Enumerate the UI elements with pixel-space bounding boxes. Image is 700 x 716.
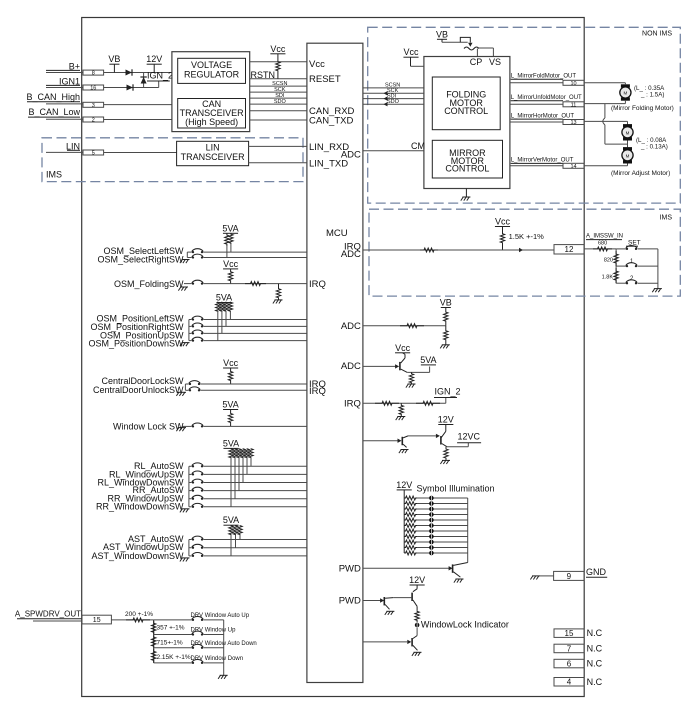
- svg-text:OSM_FoldingSW: OSM_FoldingSW: [114, 279, 184, 289]
- wire SDI right: [363, 93, 424, 100]
- svg-text:(Mirror Folding Motor): (Mirror Folding Motor): [611, 105, 674, 112]
- svg-text:ADC: ADC: [341, 361, 361, 372]
- svg-text:Vcc: Vcc: [309, 59, 325, 70]
- resistor 680: [593, 241, 612, 251]
- label WindowLock Indicator: [421, 620, 509, 630]
- svg-text:CP: CP: [470, 57, 483, 67]
- svg-text:12V: 12V: [438, 415, 454, 425]
- RL RR switch group: [96, 461, 307, 513]
- svg-text:4: 4: [567, 678, 572, 687]
- illumination resistor-LED array: [404, 490, 468, 555]
- wire IGN1 diode run: [104, 81, 170, 88]
- ground below motor control: [461, 189, 471, 201]
- label N.C 7: [587, 644, 603, 654]
- svg-text:15: 15: [565, 629, 574, 638]
- svg-text:200 +-1%: 200 +-1%: [125, 611, 153, 618]
- svg-text:TRANSCEIVER: TRANSCEIVER: [181, 152, 246, 162]
- net 12V windowlock: [409, 575, 425, 585]
- wire SDI left: [250, 93, 307, 99]
- svg-text:N.C: N.C: [587, 659, 603, 669]
- ground IRQ pulldown: [396, 417, 406, 421]
- wire B_CAN_High: [27, 102, 83, 104]
- net VB (motor supply): [436, 29, 448, 39]
- Vcc pullup label: [270, 44, 286, 54]
- svg-text:8: 8: [92, 71, 95, 77]
- diode D2 on IGN1 line: [127, 84, 134, 90]
- MCU pin label CAN_TXD: [309, 115, 353, 126]
- wire M2 to M3: [627, 141, 629, 148]
- svg-text:IGN_2: IGN_2: [147, 71, 173, 81]
- resistor 357: [152, 621, 185, 635]
- svg-text:12V: 12V: [409, 575, 425, 585]
- ground IMS switches: [652, 289, 662, 293]
- net 5VA (AST): [223, 515, 239, 525]
- ground Q2: [406, 384, 416, 388]
- transistor Q3: [398, 437, 404, 445]
- resistor 1.5K pullup: [500, 227, 504, 251]
- svg-text:B+: B+: [69, 61, 80, 71]
- svg-text:OSM_SelectRightSW: OSM_SelectRightSW: [97, 255, 184, 265]
- FET arrow: [468, 43, 472, 47]
- svg-text:L_MirrorUnfoldMotor_OUT: L_MirrorUnfoldMotor_OUT: [511, 95, 582, 101]
- CAN transceiver block: [178, 99, 246, 129]
- pullup resistor folding: [228, 269, 232, 284]
- resistor VB upper: [444, 308, 448, 326]
- wire pin12 out: [584, 248, 616, 250]
- label B_CAN_High: [26, 92, 80, 102]
- wire pin5 to LIN transceiver: [104, 152, 177, 154]
- net Vcc motor ctrl: [403, 47, 419, 57]
- wire RSTN to MCU RESET: [250, 78, 307, 80]
- svg-text:ADC: ADC: [341, 249, 361, 260]
- svg-text:13: 13: [570, 120, 576, 126]
- svg-text:5VA: 5VA: [216, 293, 232, 303]
- svg-text:VOLTAGE: VOLTAGE: [191, 60, 232, 70]
- switch 1: [616, 259, 658, 267]
- folding motor control block: [432, 77, 500, 130]
- label A_IMSSW_IN: [586, 234, 623, 240]
- wire PWD illum: [363, 567, 451, 569]
- regulator outer box: [172, 52, 250, 132]
- svg-text:_ : 0.13A): _ : 0.13A): [640, 144, 668, 151]
- svg-text:Window Lock SW: Window Lock SW: [113, 421, 184, 431]
- svg-text:B_CAN_High: B_CAN_High: [26, 92, 80, 102]
- label A_SPWDRV_OUT: [15, 610, 82, 619]
- pin 13 L_MirrorHorMotor_OUT: [510, 113, 584, 126]
- wire LIN: [46, 150, 83, 152]
- wire ADC divider: [363, 325, 446, 327]
- wire IGN1: [46, 85, 83, 87]
- svg-text:16: 16: [90, 85, 96, 91]
- pin 4 NC: [554, 678, 584, 687]
- label folding motor current: [634, 85, 665, 99]
- svg-text:N.C: N.C: [587, 677, 603, 687]
- svg-text:CAN_TXD: CAN_TXD: [309, 115, 353, 126]
- label IMS right: [660, 215, 673, 222]
- pin 3: [83, 102, 104, 108]
- wire MCU to Q8 base: [363, 641, 407, 643]
- wire LIN_TXD: [249, 162, 307, 164]
- svg-text:CONTROL: CONTROL: [444, 106, 488, 116]
- wire IMS sense: [363, 249, 554, 251]
- voltage regulator text: [184, 60, 240, 80]
- switch OSM_SelectRightSW: [97, 255, 184, 265]
- svg-text:Vcc: Vcc: [270, 44, 286, 54]
- ground Q8: [412, 652, 422, 656]
- NON IMS dashed region: [368, 27, 681, 203]
- svg-text:12V: 12V: [146, 54, 162, 64]
- pin 5: [83, 150, 104, 156]
- svg-text:IMS: IMS: [660, 215, 673, 222]
- wire pin15 to ladder: [111, 619, 153, 621]
- svg-text:L_MirrorHorMotor_OUT: L_MirrorHorMotor_OUT: [511, 113, 575, 119]
- net 5VA (position): [216, 293, 232, 303]
- wire B+ to regulator: [104, 72, 172, 74]
- svg-text:IGN1: IGN1: [59, 76, 80, 86]
- svg-text:RR_WindowDownSW: RR_WindowDownSW: [96, 502, 184, 512]
- svg-text:WindowLock Indicator: WindowLock Indicator: [421, 620, 509, 630]
- label mirror adjust motor: [611, 170, 670, 177]
- pin 9 GND: [554, 571, 584, 580]
- svg-text:5VA: 5VA: [223, 515, 239, 525]
- svg-text:715+-1%: 715+-1%: [157, 639, 183, 646]
- net IGN_2 label: [147, 71, 173, 82]
- outer border frame of module: [82, 18, 585, 697]
- svg-text:357 +-1%: 357 +-1%: [157, 625, 185, 632]
- resistor 1.8K: [602, 268, 619, 283]
- label B_CAN_Low: [28, 107, 80, 117]
- MCU pin label RESET: [309, 74, 341, 85]
- voltage regulator block: [178, 58, 246, 83]
- wire pin3 to CAN: [104, 104, 172, 106]
- position switch group: [88, 314, 306, 349]
- wire FET to VS: [477, 48, 493, 57]
- svg-text:M: M: [626, 131, 630, 136]
- svg-text:3: 3: [92, 103, 95, 109]
- MCU pin label CAN_RXD: [309, 106, 355, 117]
- svg-text:5VA: 5VA: [222, 223, 238, 233]
- ladder node chain: [153, 620, 155, 663]
- pin 12: [554, 245, 584, 255]
- MCU pin label LIN_RXD: [309, 142, 349, 153]
- wire ADC to Q base: [363, 365, 396, 367]
- svg-text:M: M: [626, 154, 630, 159]
- folding branch resistor: [273, 284, 283, 304]
- svg-text:L_MirrorVerMotor_OUT: L_MirrorVerMotor_OUT: [511, 158, 574, 164]
- net 12V (12VC): [438, 415, 454, 425]
- net VB tap: [108, 54, 120, 72]
- svg-text:Vcc: Vcc: [223, 259, 239, 269]
- MCU pin label IRQ (IGN): [344, 398, 361, 409]
- wire PWD drive: [363, 440, 398, 442]
- wire CAN_RXD: [250, 110, 307, 112]
- transistor Q4: [440, 436, 447, 447]
- wire 12V wl: [413, 585, 417, 592]
- MCU pin label ADC (VB): [341, 321, 361, 332]
- svg-text:SDO: SDO: [274, 99, 287, 105]
- net 12V illumination: [396, 480, 412, 490]
- net 5VA out: [420, 355, 436, 365]
- wire B_CAN_Low: [28, 117, 83, 119]
- svg-text:IMS: IMS: [46, 170, 62, 180]
- pullup resistor door: [228, 368, 232, 384]
- LED windowlock: [415, 621, 420, 627]
- net Vcc (folding): [223, 259, 239, 269]
- svg-text:5VA: 5VA: [222, 400, 238, 410]
- svg-text:IRQ: IRQ: [344, 398, 361, 409]
- svg-text:NON IMS: NON IMS: [642, 31, 672, 38]
- LIN transceiver text: [181, 142, 246, 161]
- net Vcc (5VA switch): [395, 343, 411, 353]
- pullup resistors select: [225, 233, 233, 257]
- transistor Q2: [395, 362, 401, 370]
- motor M1 mirror folding: [620, 84, 631, 100]
- resistor Q2 load: [409, 372, 413, 384]
- wire CAN_TXD: [250, 119, 307, 121]
- svg-text:IRQ: IRQ: [309, 279, 326, 290]
- label mirror folding motor: [611, 105, 674, 112]
- svg-text:2.15K +-1%: 2.15K +-1%: [157, 654, 191, 661]
- svg-text:REGULATOR: REGULATOR: [184, 70, 240, 80]
- svg-text:SDO: SDO: [387, 99, 400, 105]
- svg-text:12V: 12V: [396, 480, 412, 490]
- wire A_SPWDRV: [33, 620, 82, 622]
- svg-text:5VA: 5VA: [420, 355, 436, 365]
- ground Q6: [385, 611, 395, 615]
- pullup resistor window lock: [228, 410, 232, 427]
- Q3 emitter ground: [399, 444, 409, 453]
- net 5VA (window lock): [222, 400, 238, 410]
- wire Q4 emitter to 12VC: [447, 443, 468, 447]
- window lock switch: [113, 421, 307, 431]
- transistor Q5 illumination: [449, 563, 468, 578]
- svg-text:5: 5: [92, 150, 95, 156]
- resistor 715: [152, 636, 183, 648]
- wire LIN_RXD: [249, 145, 307, 147]
- svg-text:OSM_PositionDownSW: OSM_PositionDownSW: [88, 339, 184, 349]
- pin 15 NC: [554, 629, 584, 638]
- resistor RSTN pullup: [276, 54, 280, 79]
- svg-text:RESET: RESET: [309, 74, 341, 85]
- svg-text:Vcc: Vcc: [403, 47, 419, 57]
- MCU pin label IRQ (lock): [309, 379, 326, 390]
- label 1.5K: [509, 232, 545, 241]
- IMS switch common bus: [657, 249, 659, 289]
- MCU pin label PWD (wl): [339, 596, 361, 607]
- switch SET: [616, 240, 658, 250]
- label Symbol Illumination: [417, 484, 495, 494]
- ground DRV: [218, 675, 228, 679]
- pin 6 NC: [554, 659, 584, 668]
- FET gate loop: [460, 37, 470, 42]
- svg-text:Vcc: Vcc: [495, 217, 511, 227]
- motor M3 mirror vertical: [622, 147, 633, 163]
- svg-text:M: M: [624, 91, 628, 96]
- diode D1 on B+ line: [126, 69, 133, 75]
- svg-text:PWD: PWD: [339, 563, 361, 574]
- MCU pin label PWD (illum): [339, 563, 361, 574]
- svg-text:MCU: MCU: [326, 228, 348, 239]
- wire M3 return to pin14: [584, 164, 627, 166]
- resistor IRQ 1: [375, 401, 399, 405]
- pin 11 L_MirrorUnfoldMotor_OUT: [510, 95, 584, 108]
- svg-text:15: 15: [93, 617, 101, 624]
- resistor IRQ pulldown: [399, 403, 403, 416]
- net Vcc (door): [223, 358, 239, 368]
- svg-text:VB: VB: [108, 54, 120, 64]
- svg-text:LIN: LIN: [66, 141, 80, 151]
- MCU pin label Vcc: [309, 59, 325, 70]
- Q3 collector link: [403, 434, 440, 438]
- illumination right bus: [467, 498, 469, 563]
- svg-text:7: 7: [567, 644, 572, 653]
- resistor 200: [125, 611, 153, 622]
- Q2 collector to 5VA: [401, 367, 430, 373]
- pin 10 L_MirrorFoldMotor_OUT: [510, 74, 584, 87]
- motor control outer box: [424, 57, 510, 189]
- switch OSM_SelectLeftSW: [103, 246, 184, 256]
- svg-text:2: 2: [92, 117, 95, 123]
- ground pin9 wire: [530, 576, 553, 580]
- IMS dashed region right: [369, 209, 680, 296]
- svg-text:9: 9: [567, 572, 572, 581]
- ground Q5: [454, 579, 464, 583]
- net 12V tap: [146, 54, 162, 72]
- wire SCSN left: [250, 81, 307, 87]
- svg-text:IGN_2: IGN_2: [435, 387, 461, 397]
- diode D3 vertical to VB rail: [140, 73, 146, 88]
- net 5VA (RL RR): [223, 438, 239, 448]
- label NON IMS: [642, 31, 672, 38]
- label N.C 15: [587, 628, 603, 638]
- wire pin13 to hor motor: [584, 121, 627, 124]
- svg-text:VB: VB: [436, 29, 448, 39]
- resistor WL: [415, 606, 419, 621]
- svg-text:_ : 1.5A): _ : 1.5A): [640, 92, 664, 99]
- pin 2: [83, 117, 104, 123]
- MCU pin label LIN_TXD: [309, 158, 348, 169]
- resistor folding series: [245, 282, 266, 286]
- net Vcc IMS: [495, 217, 511, 227]
- svg-text:CM: CM: [411, 141, 425, 151]
- wire common branch: [603, 104, 628, 145]
- wire CM: [363, 141, 425, 151]
- svg-text:820: 820: [604, 258, 613, 264]
- svg-text:Vcc: Vcc: [395, 343, 411, 353]
- central door switches: [93, 376, 307, 396]
- svg-text:L_MirrorFoldMotor_OUT: L_MirrorFoldMotor_OUT: [511, 74, 577, 80]
- svg-text:(High Speed): (High Speed): [185, 117, 238, 127]
- motor M2 mirror horizontal: [622, 124, 633, 140]
- wire IRQ ign: [363, 402, 446, 404]
- ground Q4: [440, 460, 450, 464]
- svg-text:A_IMSSW_IN: A_IMSSW_IN: [586, 234, 623, 240]
- label CP VS: [470, 57, 501, 67]
- switch OSM_FoldingSW: [114, 279, 184, 289]
- svg-text:VS: VS: [489, 57, 501, 67]
- wire SCSN right: [363, 83, 424, 89]
- label N.C 6: [587, 659, 603, 669]
- svg-text:B_CAN_Low: B_CAN_Low: [28, 107, 80, 117]
- wire SCK left: [250, 87, 307, 93]
- net 12VC: [457, 431, 481, 442]
- MCU pin label IRQ (IMS): [344, 242, 361, 253]
- net IGN_2 right: [434, 387, 461, 404]
- net VB divider: [440, 298, 452, 308]
- svg-text:Symbol Illumination: Symbol Illumination: [417, 484, 495, 494]
- select switches pair: [180, 249, 307, 263]
- wire B+: [46, 70, 83, 72]
- pin 7 NC: [554, 644, 584, 653]
- mirror motor control text: [445, 148, 489, 173]
- svg-text:RSTN: RSTN: [251, 70, 276, 80]
- MCU pin label ADC (IMS): [341, 249, 361, 260]
- transistor Q7: [411, 593, 417, 607]
- wire pin2 to CAN: [104, 119, 172, 121]
- label IGN1: [59, 76, 80, 86]
- pin 14 L_MirrorVerMotor_OUT: [510, 158, 584, 170]
- wire Vcc to box: [411, 57, 424, 66]
- wire PWD wl: [363, 600, 383, 602]
- svg-text:2: 2: [630, 276, 634, 282]
- svg-text:12: 12: [565, 245, 574, 254]
- svg-text:(Mirror Adjust Motor): (Mirror Adjust Motor): [611, 170, 670, 177]
- wire 12V to Q4: [441, 425, 446, 439]
- svg-text:N.C: N.C: [587, 628, 603, 638]
- svg-text:PWD: PWD: [339, 596, 361, 607]
- wire folding motor return: [584, 101, 625, 104]
- CAN transceiver text: [180, 99, 245, 127]
- wire Q6 to Q7: [393, 597, 411, 599]
- MCU pin label ADC (CM): [341, 150, 361, 161]
- transistor Q6: [380, 597, 393, 609]
- MCU pin label IRQ (unlock): [309, 386, 326, 397]
- svg-text:CentralDoorUnlockSW: CentralDoorUnlockSW: [93, 385, 184, 395]
- svg-text:Vcc: Vcc: [223, 358, 239, 368]
- wire SDO right: [363, 99, 424, 106]
- label LIN: [66, 141, 80, 151]
- svg-text:10: 10: [570, 81, 576, 87]
- resistor 820: [604, 251, 618, 266]
- svg-text:AST_WindowDownSW: AST_WindowDownSW: [91, 551, 184, 561]
- svg-text:SET: SET: [628, 240, 641, 247]
- resistor on ADC wire: [400, 324, 424, 328]
- svg-text:14: 14: [570, 164, 576, 170]
- pin 16: [83, 85, 104, 91]
- IMS dashed region (LIN): [42, 138, 303, 182]
- svg-text:N.C: N.C: [587, 644, 603, 654]
- resistor 2.15K: [152, 649, 191, 663]
- svg-text:12VC: 12VC: [458, 431, 481, 441]
- wire Vcc regulator to MCU: [250, 61, 307, 63]
- ground VB divider: [440, 345, 450, 349]
- mosfet Q1 body: [464, 47, 479, 50]
- pullup resistors RL RR: [229, 448, 253, 506]
- MCU pin label IRQ (folding): [309, 279, 326, 290]
- pin 8: [83, 70, 104, 76]
- resistor VB lower: [444, 326, 448, 345]
- label B+: [69, 61, 80, 71]
- mirror motor control block: [432, 140, 502, 178]
- wire Vcc to Q emitter: [401, 353, 405, 363]
- pullup resistors position: [216, 302, 233, 340]
- node IMS ladder: [615, 249, 617, 283]
- svg-text:LIN_TXD: LIN_TXD: [309, 158, 348, 169]
- svg-text:680: 680: [598, 241, 607, 247]
- svg-text:CONTROL: CONTROL: [445, 163, 489, 173]
- label IMS left: [46, 170, 62, 180]
- svg-text:1.5K +-1%: 1.5K +-1%: [509, 232, 545, 241]
